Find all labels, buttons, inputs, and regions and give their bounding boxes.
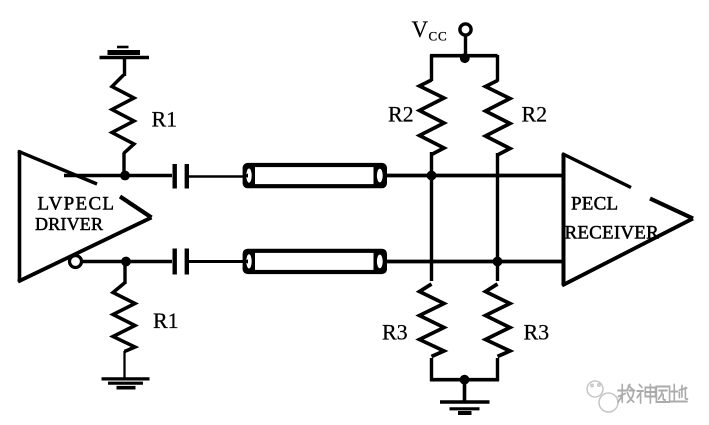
ground (flipped, top-left above R1) bbox=[100, 47, 150, 76]
wire R1 to node A bbox=[122, 153, 125, 176]
wire R3 to bottom rail bbox=[496, 358, 499, 381]
junction dot right branch / bottom line bbox=[493, 257, 503, 267]
wire to R3 (right) bbox=[496, 262, 499, 282]
svg-text:R2: R2 bbox=[522, 102, 548, 127]
resistor R1 (top) bbox=[112, 75, 134, 154]
svg-text:PECL: PECL bbox=[571, 194, 618, 215]
top rail wire bbox=[430, 54, 498, 58]
op-amp U2 PECL receiver bbox=[562, 154, 693, 286]
wire rail to ground bbox=[463, 380, 467, 401]
zigzag R1 (bottom) bbox=[113, 283, 135, 352]
地 bbox=[671, 385, 688, 402]
junction dot left branch / top line bbox=[427, 171, 437, 181]
bottom rail wire bbox=[430, 378, 499, 382]
svg-text:DRIVER: DRIVER bbox=[35, 214, 103, 234]
wire T1 to receiver bbox=[386, 174, 562, 178]
node B junction dot (out-, R1 bottom) bbox=[121, 257, 131, 267]
left branch: wire rail to R2 bbox=[430, 55, 433, 81]
wire T2 to receiver bbox=[386, 260, 562, 264]
神 bbox=[637, 385, 655, 404]
Vcc terminal bbox=[460, 24, 471, 35]
wire R1 to ground bbox=[123, 351, 125, 378]
svg-text:V: V bbox=[412, 17, 429, 42]
capacitor C2 (bottom) bbox=[175, 249, 187, 275]
svg-text:LVPECL: LVPECL bbox=[38, 194, 116, 215]
node A junction dot (driver + output, R1) bbox=[120, 171, 130, 181]
watermark text 牧神园地 (drawn strokes) bbox=[618, 385, 688, 404]
right branch: wire rail to R2 bbox=[496, 55, 499, 82]
svg-text:R1: R1 bbox=[152, 107, 178, 132]
transmission line T1 (top) bbox=[243, 163, 387, 188]
watermark logo circles bbox=[587, 381, 618, 412]
ground (bottom right) bbox=[440, 402, 490, 413]
wire driver out+ bbox=[64, 174, 172, 177]
wire C1 to T-line bbox=[189, 175, 244, 177]
wire R2 to top line bbox=[430, 152, 433, 176]
园 bbox=[656, 387, 669, 403]
svg-text:RECEIVER: RECEIVER bbox=[565, 223, 660, 244]
resistor R2 (left) bbox=[420, 80, 445, 155]
op-amp U1 LVPECL driver bbox=[18, 150, 152, 282]
resistor R3 (right) bbox=[486, 284, 511, 357]
wire crossing to R3 (left) bbox=[430, 176, 433, 282]
junction dot bottom rail bbox=[460, 375, 470, 385]
wire C2 to T-line bbox=[189, 260, 244, 263]
junction dot on rail bbox=[460, 53, 470, 63]
wire driver out- bbox=[82, 260, 173, 263]
resistor R3 (left) bbox=[420, 284, 445, 357]
resistor R1 (bottom) bbox=[123, 262, 126, 285]
牧 bbox=[618, 385, 635, 403]
inverter bubble on driver out- bbox=[70, 256, 82, 268]
wire R3 to bottom rail bbox=[430, 358, 433, 381]
ground (bottom left) bbox=[102, 379, 150, 388]
svg-text:R3: R3 bbox=[524, 320, 550, 345]
svg-text:CC: CC bbox=[429, 28, 448, 43]
transmission line T2 (bottom) bbox=[243, 249, 387, 274]
resistor R2 (right) bbox=[486, 81, 511, 156]
capacitor C1 (top) bbox=[175, 164, 187, 189]
svg-text:R2: R2 bbox=[388, 102, 414, 127]
svg-text:R1: R1 bbox=[153, 308, 179, 333]
wire R2 crossing top line to bottom line bbox=[496, 153, 499, 262]
wire Vcc to rail bbox=[464, 35, 467, 57]
svg-text:R3: R3 bbox=[382, 320, 408, 345]
